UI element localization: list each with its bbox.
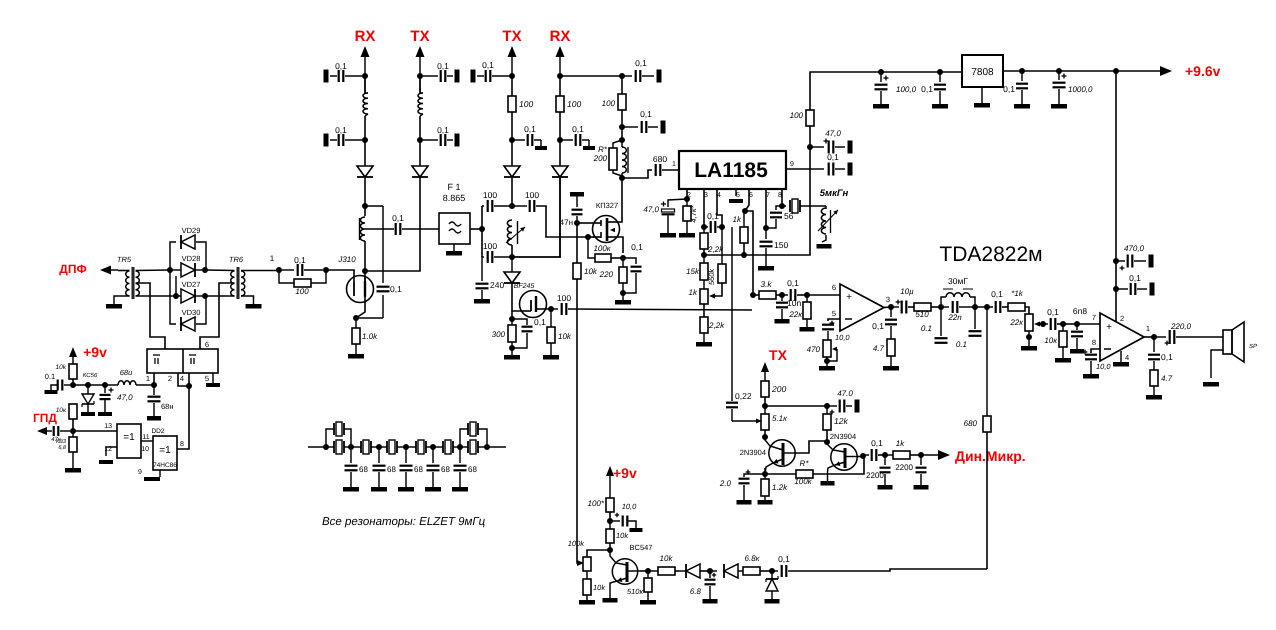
wire col3 junction to resistor [511,76,513,96]
node preamp mid [619,124,625,130]
svg-text:150: 150 [774,240,788,250]
pin5 ground stub [729,189,743,203]
opamp2 out [1144,336,1154,338]
pin2 label opamp2 [1120,314,1124,323]
diode col4 [552,166,568,177]
svg-text:0,1: 0,1 [534,317,546,327]
svg-text:VD29: VD29 [182,226,201,235]
arrow DPF out [100,266,118,275]
svg-text:4,7k*: 4,7k* [689,204,698,222]
label resonators note [322,516,486,528]
wire 1k to bus [743,243,745,255]
svg-text:74HC86: 74HC86 [153,462,177,469]
IC LA1185 box [679,151,786,189]
svg-text:0,1: 0,1 [390,284,402,294]
resistor 560k [707,227,726,285]
node C diode ring bot-left [173,293,179,299]
capacitor 2200b [895,455,928,490]
svg-text:1k: 1k [896,439,905,448]
svg-text:0,1: 0,1 [1129,273,1141,283]
variable inductor mixer [506,220,525,245]
svg-text:+9.6v: +9.6v [1185,63,1221,79]
svg-text:30мГ: 30мГ [948,276,968,286]
wire to 2200 node [878,454,885,456]
wire preamp out to 680 cap [622,170,652,178]
wire preamp resistor to j [621,110,623,127]
ground top of osc rail [570,192,584,207]
diode VD28 [173,254,202,277]
capacitor 0.1 col3 top [471,60,510,83]
capacitor 0.1 node1 [282,255,323,276]
node BF245 source [509,316,515,322]
svg-text:68: 68 [359,465,368,474]
node col4 junction2 [557,137,563,143]
resistor 100 parallel [279,270,326,296]
resistor 10k collector out [648,554,675,575]
node col3 top junction [509,73,515,79]
svg-text:0,22: 0,22 [735,391,752,401]
node zener tap [85,382,91,388]
resistor 1.2k emitter1 [758,474,789,505]
svg-text:200: 200 [593,154,608,163]
svg-text:240: 240 [490,280,504,290]
pin labels 1 2 4 5 [146,374,209,383]
resistor 6.8k [743,554,761,575]
transistor BF245 (JFET) [520,291,547,318]
wire preamp to R coil node [621,127,623,140]
label DPF (red) [59,262,86,276]
variable inductor 5mkGn [817,206,839,249]
pin5 lead [828,319,840,321]
resistor 510 [914,303,931,319]
capacitor 0.1 7808 out [1003,71,1030,109]
node 0.1 at 7808 in [937,69,943,75]
crystal X4 ladder [406,440,433,454]
node BC547 base [607,547,613,553]
wire col3 resistor to junction2 [511,112,513,140]
pin5 label opamp1 [832,309,836,318]
wire col2 diode down to J310 drain node [365,177,420,271]
svg-text:0,1: 0,1 [482,60,494,70]
wire KP327 source down [619,237,623,253]
svg-text:TR6: TR6 [229,255,244,264]
svg-text:6.8: 6.8 [690,587,702,596]
wire TX node right [765,405,827,407]
svg-text:1: 1 [146,374,150,383]
ground 7808 [974,87,990,108]
svg-text:0,1: 0,1 [392,213,404,223]
node 47.0 tap [102,382,108,388]
inductor 68u [118,368,136,385]
capacitor 1000.0 electrolytic [1051,71,1093,109]
node BC547 collector [645,568,651,574]
node wiper [1040,321,1046,327]
transformer TR6 label [229,255,244,264]
resistor 220 source [599,258,627,283]
capacitor 0.1 filter right [956,307,982,349]
svg-text:BC547: BC547 [630,543,653,552]
svg-text:22n: 22n [947,313,962,322]
AGC bus [704,169,810,255]
speaker [1223,322,1257,362]
resistor 2.2k lower [700,317,725,333]
resistor 100k gate bias [588,237,612,262]
node 300 bottom [509,345,515,351]
capacitor 47.0 at pin2 [643,199,687,238]
pot wiper arrow 1k [709,294,715,299]
svg-text:6,8: 6,8 [58,445,67,451]
resistor 200 TX [761,381,786,397]
label node 1 [270,254,275,263]
node clipper mid [707,568,713,574]
capacitor 0.1 pin3-pin4 [704,211,722,233]
node col2 junction2 [417,137,423,143]
svg-text:0,1: 0,1 [1161,352,1173,362]
resistor 1.0k J310 source [352,318,378,344]
node col1 top junction [362,73,368,79]
resistor 4.7 opamp2 out [1146,370,1173,400]
transistor BC547 [603,543,653,603]
capacitor 0.1 preamp mid [622,109,666,134]
svg-text:2: 2 [1120,314,1124,323]
pin10 label [141,446,149,453]
ground below 2.2k [696,333,712,347]
wire to opamp pin6 [807,294,840,296]
wire col1 coil to junction2 [364,116,366,140]
wire col4 resistor to junction2 [559,112,561,140]
resistor 100 col4 [556,96,581,112]
node 47.0 TX [824,403,830,409]
svg-text:680: 680 [653,154,667,164]
ground emitter2 [821,472,835,486]
label +9.6v (red) [1185,63,1221,79]
wire TR6 sec top to node 1 [241,270,279,272]
node +9v filter [70,382,76,388]
wire collector1 to base2 node [795,441,827,453]
II symbol left cell [153,355,160,364]
capacitor 0.1 opamp in [782,278,799,301]
wire col1 to diode [364,140,366,166]
svg-text:10n: 10n [787,298,801,308]
label RX (red) antenna col1 [355,28,376,45]
svg-text:4.7: 4.7 [1161,374,1173,383]
svg-text:R*: R* [800,459,810,468]
node opamp1 out [888,304,894,310]
svg-text:2,2k: 2,2k [707,245,724,254]
capacitor 0.1 col2 top [423,61,460,83]
wire drain coil to drain node [364,241,366,271]
wire D to TR6 prim bottom [205,295,235,297]
wire 3k to cap [776,294,782,296]
filter F1 box [439,182,470,244]
diode VD27 [179,280,202,303]
svg-text:SP: SP [1249,343,1257,350]
wire col4 to diode [559,140,561,166]
transistor 2N3904 Q1 [740,437,795,474]
wire to 6n8 node [1063,323,1077,325]
svg-text:12k: 12k [834,416,848,426]
capacitor 47.0 TX [827,389,860,414]
svg-text:R*: R* [598,145,608,154]
pot 5.1k [756,406,788,430]
node BC547 supply [607,518,613,524]
arrow +9v mid [606,466,614,498]
svg-text:+: + [1106,322,1112,333]
resistor R* 100k feedback [765,459,813,486]
svg-text:КС56: КС56 [83,372,98,379]
resistor 10k osc rail [573,263,598,279]
wire to diode1 [675,570,679,572]
wire 10u to 510 [908,306,914,308]
node opamp feed [750,292,756,298]
node 10n [779,292,785,298]
svg-text:100: 100 [567,99,581,109]
pin9 stub+gnd [138,469,160,481]
svg-text:2: 2 [168,374,172,383]
svg-text:100*: 100* [588,499,605,508]
ground TR5 primary [106,296,130,309]
svg-text:100: 100 [519,99,533,109]
arrow TX mid [761,362,769,381]
wire 7808 out [1003,70,1164,72]
capacitor 6.8 electrolytic [690,571,718,604]
wire GPD to gate1 pin13 [73,430,117,432]
capacitor 240 below F1 node [474,257,504,304]
wire to mic arrow [921,454,938,456]
pin8 label opamp2 [1092,338,1096,347]
svg-text:DD2: DD2 [151,428,164,435]
svg-text:10,0: 10,0 [835,333,850,342]
capacitor 0.1 col3 lower w/ gnd [515,124,547,150]
svg-text:300: 300 [492,330,506,339]
node GPD [70,428,76,434]
svg-text:7808: 7808 [971,67,994,78]
transformer TR5 [126,267,140,299]
power rail top [810,72,962,110]
svg-text:15k: 15k [686,267,700,276]
node pin4 junction [186,383,192,389]
capacitor 0.1 mic [863,438,883,461]
node 6n8 [1074,321,1080,327]
svg-text:4: 4 [1125,353,1129,362]
wire 68u to pin1 node [136,384,154,386]
IC 7808 box [962,55,1003,87]
svg-text:100: 100 [483,241,497,251]
transformer TR6 [231,267,245,299]
wire pin6 to opamp input rail [745,211,753,295]
wire drain node into J310 [364,271,366,281]
resistor 12k [823,406,848,430]
svg-text:100: 100 [525,190,539,200]
svg-text:9: 9 [138,469,142,476]
crystal X2 ladder [351,440,379,454]
wire pot down [703,304,705,317]
wire filter to vol [975,306,993,308]
inductor col1 (coil) [363,76,368,116]
node 100.0 filter [878,69,884,75]
wire 510 to filter [931,306,938,308]
node AGC bus left [701,252,707,258]
label 5mkGn [820,188,849,199]
svg-text:100: 100 [295,287,309,296]
svg-text:47н: 47н [560,218,573,227]
capacitor 0.1 filter left [921,307,948,343]
svg-text:10k: 10k [593,583,606,592]
node filter j2 [348,444,354,450]
resistor 10k at IF node [543,309,572,360]
svg-text:100: 100 [602,99,616,108]
gate =1 first box [117,424,141,458]
power rail up [809,126,811,147]
node mixer bottom [509,254,515,260]
pin4 label opamp2 [1125,353,1129,362]
svg-text:100k: 100k [568,539,586,548]
svg-text:1k: 1k [733,215,742,224]
capacitor 68 shunt 4 [425,447,450,492]
node opamp2 out [1151,334,1157,340]
pot 100k BC547 [568,539,591,571]
capacitor 68 shunt 3 [398,447,423,492]
wire TR5 center tap to gate box [136,283,166,349]
pin2 lead [178,373,189,386]
capacitor 0.1 at 7808 [921,72,948,109]
label 30mG [948,276,968,286]
capacitor 680 coupling [653,154,667,176]
arrow +9v left [69,347,77,364]
svg-text:2200: 2200 [866,471,884,480]
node pin3 [701,224,707,230]
wire base node left to pot [587,550,610,557]
svg-text:220,0: 220,0 [1170,322,1192,331]
wire KP327 drain up [619,178,622,222]
capacitor 0.1 to volume [991,289,1003,313]
svg-text:510к: 510к [627,587,644,596]
label RX (red) antenna col4 [550,28,571,45]
capacitor 10.0 BC547 [610,502,643,532]
node audio rail tap [1113,68,1119,74]
node 2200a [882,452,888,458]
svg-text:LA1185: LA1185 [694,159,768,182]
crystal resonator at pin8 [782,199,826,213]
svg-text:47,0: 47,0 [643,205,659,214]
pin2 rail down from +9.6v [1115,71,1117,322]
wire pin4 down to DD2 out [177,386,189,449]
diode col3 [504,166,520,177]
wire out [884,306,891,309]
wire col2 coil to junction2 [419,116,421,140]
svg-text:68: 68 [441,465,450,474]
inductor preamp drain coil [622,140,628,178]
node pin8 [779,203,785,209]
svg-text:=1: =1 [123,432,135,443]
IC phase-splitter box [147,349,218,373]
capacitor GPD coupling [50,426,70,443]
svg-text:ГПД: ГПД [33,411,57,425]
diode col1 [357,166,373,177]
svg-text:3: 3 [886,295,890,304]
pin8 label [180,441,184,448]
wire 47n to KP327 gate2 [577,222,592,224]
capacitor 47n osc [560,210,583,227]
pin5 ground [206,373,220,387]
filter main line [308,446,326,448]
svg-text:47.0: 47.0 [837,389,853,398]
node 1000.0 out [1056,68,1062,74]
node col1 junction2 [362,137,368,143]
label 74HC86 [153,462,177,469]
ground 470 [819,357,835,371]
wire gate1 feed to MOSFET [588,236,594,238]
node filter j7 [484,444,490,450]
label GPD (red) [33,411,57,425]
resistor 22k [788,295,814,332]
node 47.0 bypass [807,144,813,150]
wire cap to pin7 node [1057,323,1063,325]
node pin7 [763,225,769,231]
resistor 680 sidetone [964,307,991,432]
wire col2 junction to coil [419,76,421,93]
inductor col2 (coil) [418,76,423,116]
svg-text:+9v: +9v [83,344,107,360]
node filter j3 [376,444,382,450]
resistor 510k [627,571,656,605]
svg-text:10,0: 10,0 [1096,362,1111,371]
capacitor 47.0 pin9 [810,129,853,154]
svg-text:5: 5 [832,309,836,318]
svg-text:510: 510 [915,310,929,319]
crystal X7 parallel left [326,422,351,447]
crystal X6 ladder [460,440,487,454]
wire col1 diode to node [364,177,366,206]
resistor 300 source [492,319,516,342]
node source bottom [620,290,626,296]
pin1 label LA1185 [672,161,676,168]
capacitor 0.1 source bypass [512,317,546,348]
diode D1 clipper [679,564,700,578]
node preamp bottom [619,175,625,181]
svg-text:1: 1 [672,161,676,168]
svg-text:100,0: 100,0 [896,85,917,94]
resistor 2.2k pin3 [700,227,724,254]
wire to opamp2 pin7 [1077,323,1100,325]
capacitor 0.1 col1 top [324,61,363,83]
resistor 100 power [790,110,814,126]
pin11 wire [141,434,153,441]
svg-text:0,1: 0,1 [778,554,790,564]
node pin6 [742,208,748,214]
capacitor 0.1 source bypass KP327 [623,242,643,293]
node 1 junction [276,267,282,273]
wire col4 diode down to mixer bottom row [512,177,560,257]
ground KP327 source [615,283,631,305]
resistor R* 200 with coil [593,140,622,176]
wire pin9 to rail [786,168,810,170]
wire 1k to 22k pot [1025,307,1029,314]
resistor 1k pin6 [733,211,748,243]
svg-text:0,1: 0,1 [640,109,652,119]
wire 680 down to modulator line [986,432,988,569]
node col1 coil top [362,203,368,209]
svg-text:5: 5 [205,374,209,383]
svg-text:VD27: VD27 [182,280,201,289]
inductor 30mG [941,289,975,307]
capacitor 10.0 pin8 [1083,350,1112,379]
capacitor 22n [941,301,975,322]
svg-text:10k: 10k [558,332,572,341]
svg-text:22к: 22к [1009,318,1024,327]
node 470 bottom [824,358,830,364]
node R200 top [619,137,625,143]
